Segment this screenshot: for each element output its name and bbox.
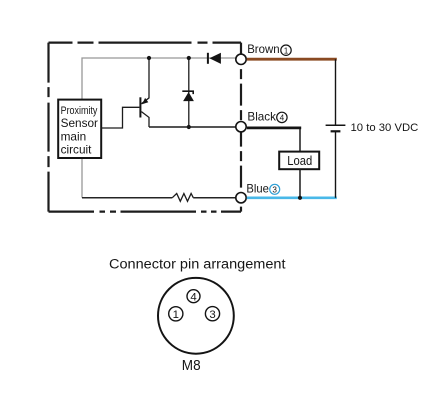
pin number 1 (circled) (281, 45, 291, 55)
wire: battery positive (335, 59, 337, 125)
proximity sensor main circuit box U1 (58, 100, 101, 158)
wire: internal supply rail (gray top + left) (82, 58, 236, 198)
svg-text:3: 3 (209, 309, 215, 321)
pin 4 (187, 290, 200, 304)
wire: load to 0V (299, 169, 301, 198)
terminal: Black pin circle (236, 122, 246, 132)
pin number 3 (circled) (270, 184, 280, 194)
junction: zener / top rail (187, 56, 191, 60)
junction: zener / output line (187, 125, 191, 129)
wire: base lead from main circuit (101, 107, 139, 128)
wire: blue lead (247, 196, 337, 199)
wire: brown lead (247, 58, 337, 61)
svg-text:Proximity: Proximity (61, 105, 98, 117)
sensor outline dashed box (49, 43, 242, 212)
svg-text:10 to 30 VDC: 10 to 30 VDC (351, 122, 419, 134)
svg-text:circuit: circuit (61, 143, 93, 157)
pin 3 (205, 307, 219, 321)
svg-text:4: 4 (190, 291, 196, 303)
wire: load feed (299, 129, 301, 152)
svg-text:1: 1 (173, 309, 179, 321)
terminal: Brown pin circle (236, 54, 246, 64)
svg-text:Black: Black (247, 110, 276, 124)
svg-text:Load: Load (287, 154, 312, 168)
svg-text:M8: M8 (182, 357, 201, 374)
svg-text:Sensor: Sensor (61, 116, 98, 130)
wire: black lead (247, 127, 301, 130)
junction: load / blue lead (298, 196, 302, 200)
junction: emitter / top rail (147, 56, 151, 60)
zener diode D2 (182, 58, 194, 127)
battery BT1 negative plate (331, 130, 341, 132)
connector face M8 (158, 278, 234, 354)
svg-text:Blue: Blue (246, 181, 269, 195)
svg-text:Brown: Brown (247, 42, 279, 56)
wire: output line to Black terminal (149, 126, 236, 128)
svg-text:4: 4 (280, 114, 285, 123)
svg-text:Connector pin arrangement: Connector pin arrangement (109, 256, 286, 272)
pin number 4 (circled) (277, 112, 287, 122)
wire: battery negative (335, 131, 337, 197)
battery BT1 positive plate (326, 124, 346, 126)
wire: internal 0V rail (bottom, left part) (82, 197, 172, 199)
pin 1 (169, 307, 183, 321)
load box (279, 152, 319, 170)
resistor R1 (172, 194, 193, 202)
wire: internal 0V rail (bottom, right part) (193, 197, 236, 199)
svg-text:1: 1 (284, 46, 289, 55)
svg-text:main: main (61, 129, 87, 143)
terminal: Blue pin circle (236, 193, 246, 203)
diode D1 (reverse protection, on top rail) (207, 53, 221, 64)
svg-text:3: 3 (272, 185, 277, 194)
transistor Q1 (PNP output) (139, 58, 149, 127)
